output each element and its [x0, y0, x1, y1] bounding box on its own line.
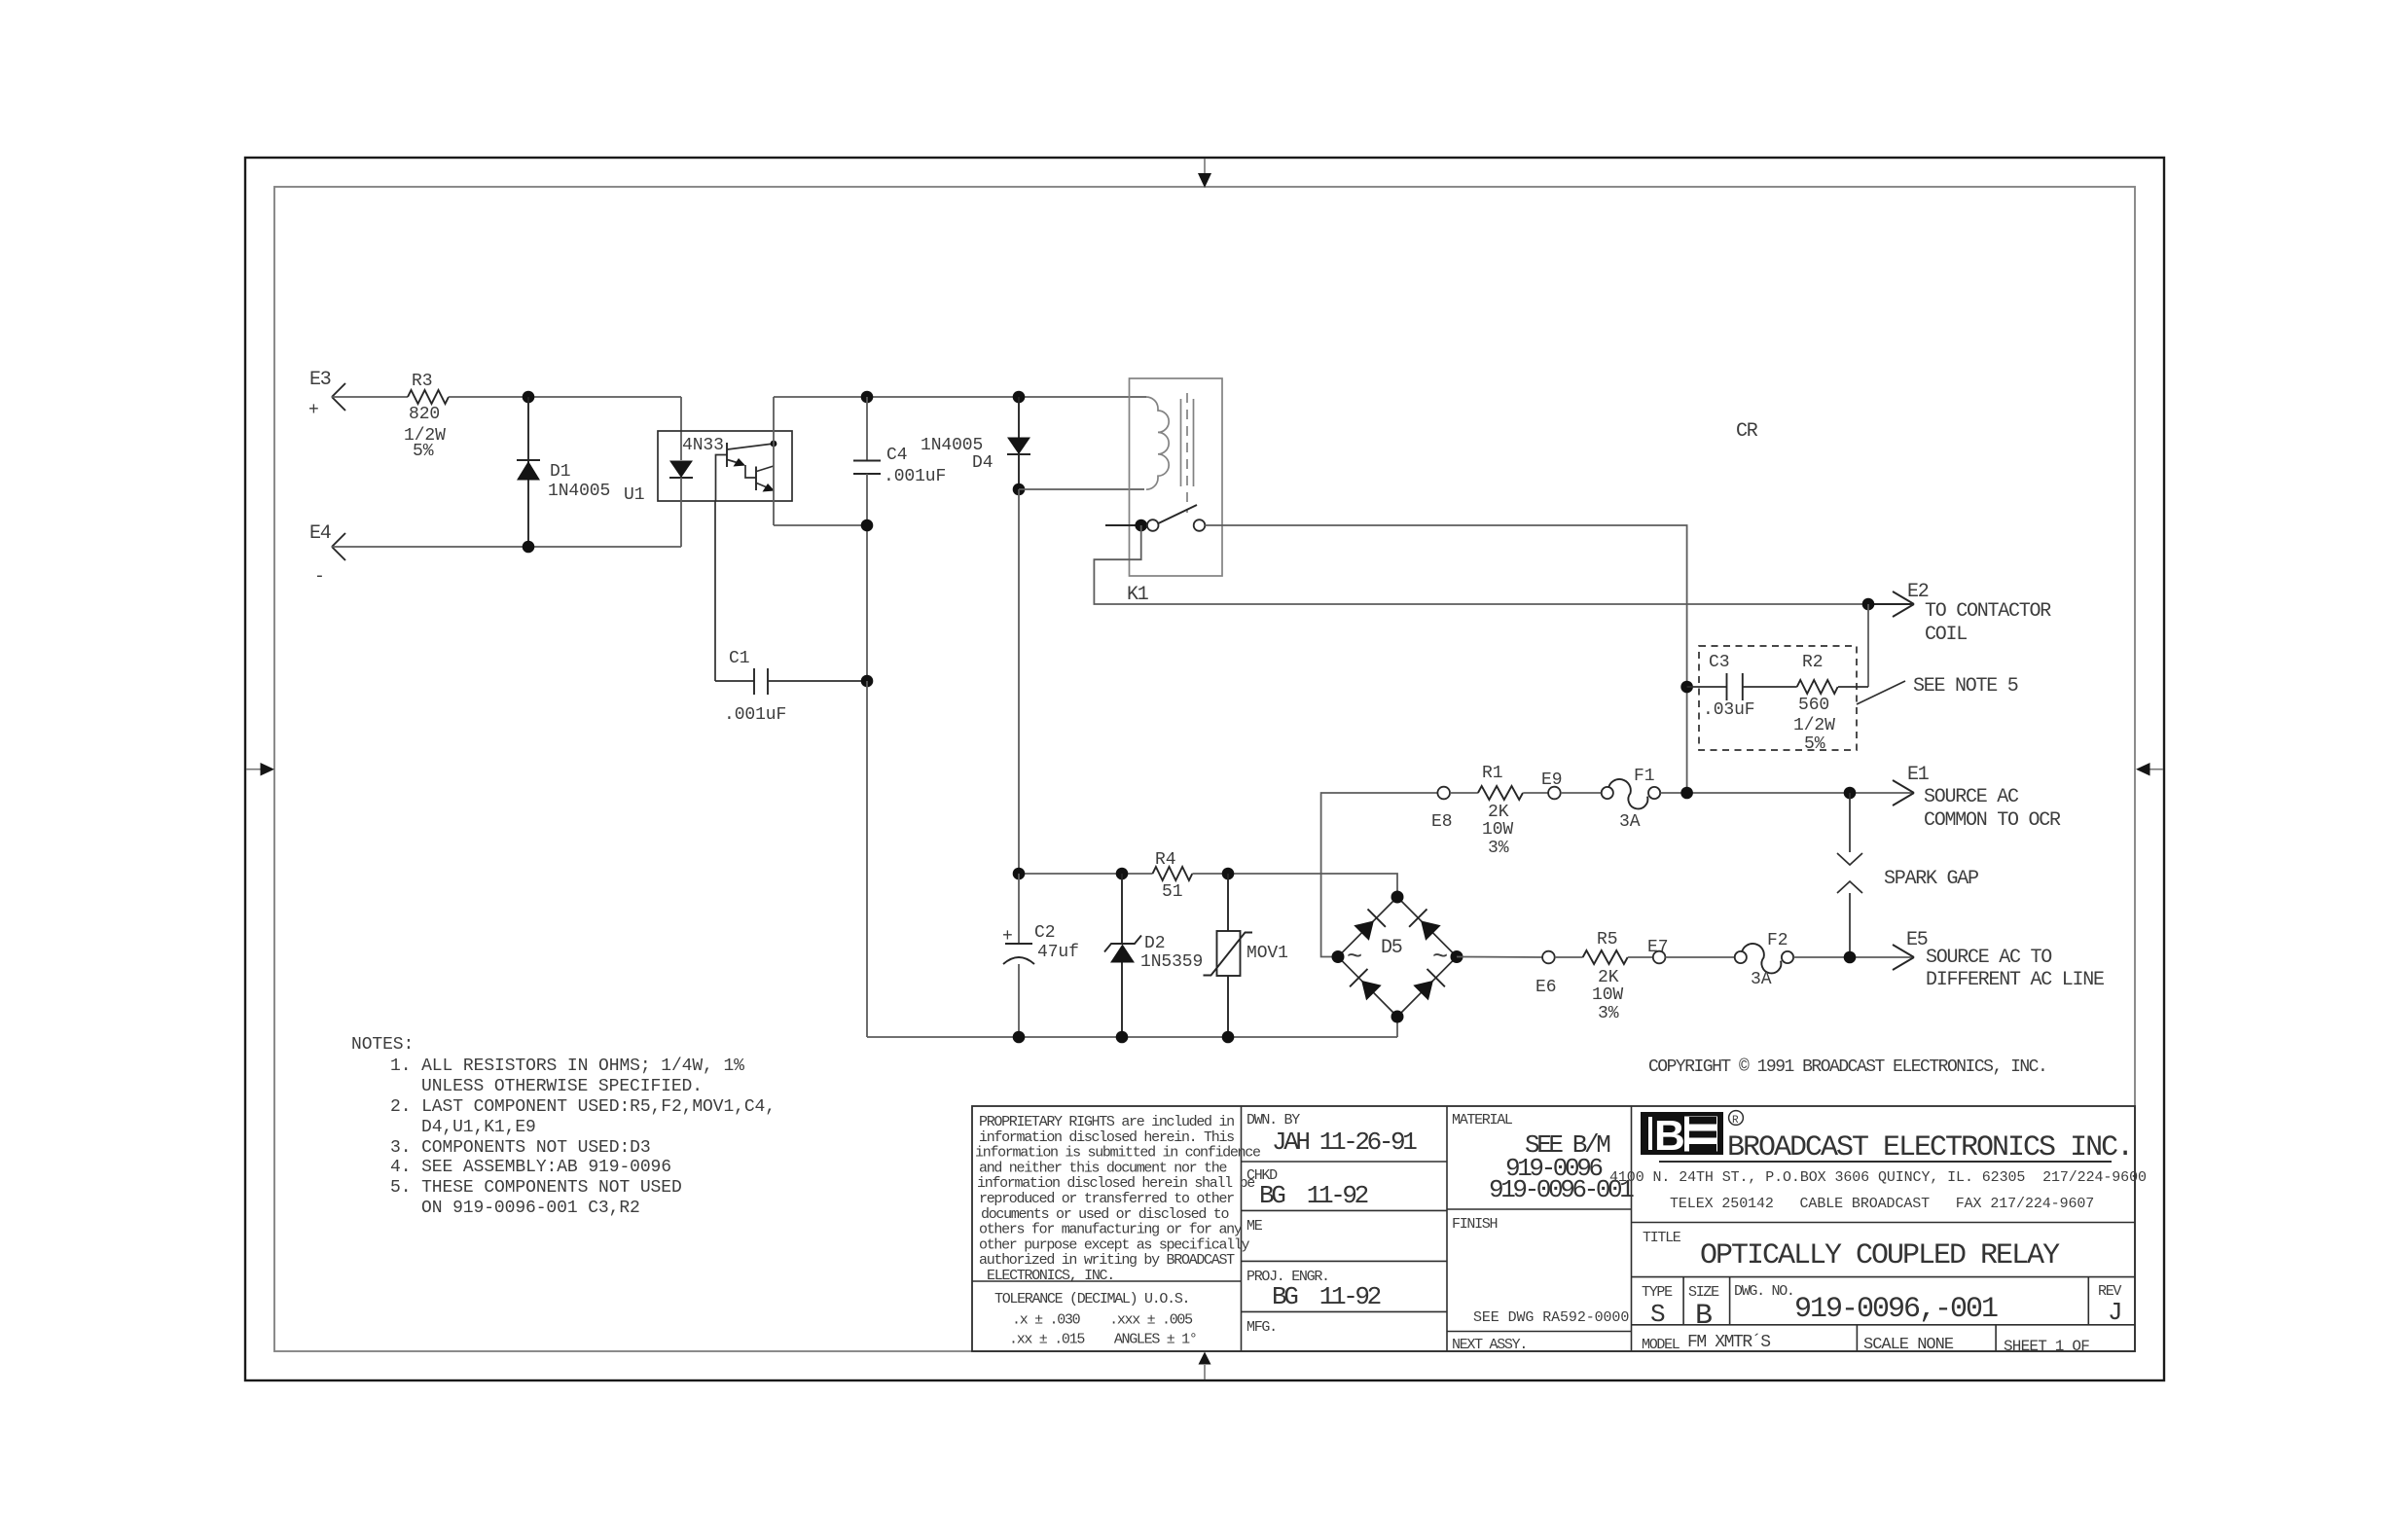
svg-text:U1: U1	[624, 485, 644, 505]
svg-text:E9: E9	[1541, 770, 1562, 790]
svg-text:+: +	[1002, 927, 1013, 947]
U1 LED	[669, 461, 693, 479]
junction node D2 top	[1116, 868, 1129, 880]
junction node C3 left tap	[1680, 681, 1693, 694]
svg-text:.001uF: .001uF	[724, 705, 786, 725]
wire R2 riser	[1867, 604, 1869, 687]
D5 vertex nodes	[1391, 891, 1404, 904]
wire E9 to F1	[1561, 792, 1602, 794]
svg-text:3. COMPONENTS NOT USED:D3: 3. COMPONENTS NOT USED:D3	[390, 1138, 651, 1158]
title row	[1632, 1223, 2136, 1273]
junction node at D1 bottom	[523, 541, 535, 554]
svg-text:FINISH: FINISH	[1452, 1216, 1498, 1233]
wire C4 column down to bottom rail	[866, 681, 868, 1037]
D5 diode bottom-left	[1361, 981, 1382, 1001]
svg-text:1. ALL RESISTORS IN OHMS; 1/4W: 1. ALL RESISTORS IN OHMS; 1/4W, 1%	[390, 1057, 744, 1076]
notes text block	[351, 1035, 776, 1218]
svg-text:MATERIAL: MATERIAL	[1452, 1112, 1513, 1128]
svg-text:E1: E1	[1907, 764, 1930, 786]
svg-text:10W: 10W	[1592, 985, 1623, 1005]
svg-text:5%: 5%	[1804, 734, 1825, 754]
wire K1 pole bent path to E2	[1094, 525, 1868, 604]
svg-text:MODEL: MODEL	[1642, 1337, 1680, 1353]
svg-text:+: +	[308, 401, 319, 420]
capacitor C2 polarized	[1002, 874, 1079, 1037]
junction node MOV1 bottom	[1222, 1031, 1235, 1044]
spark gap	[1837, 793, 1978, 957]
svg-text:5. THESE COMPONENTS NOT USED: 5. THESE COMPONENTS NOT USED	[390, 1178, 682, 1198]
svg-text:E3: E3	[309, 369, 331, 391]
relay K1 actuation dashed link	[1186, 393, 1188, 513]
svg-text:CR: CR	[1736, 420, 1758, 443]
svg-text:~: ~	[1432, 944, 1448, 973]
svg-text:TYPE: TYPE	[1642, 1284, 1673, 1301]
junction node spark gap top	[1844, 787, 1857, 800]
svg-text:820: 820	[409, 405, 440, 424]
wire E7 to F2	[1665, 956, 1734, 958]
svg-text:C2: C2	[1034, 923, 1055, 943]
junction node D4 top	[1013, 391, 1026, 404]
svg-text:authorized in writing by BROAD: authorized in writing by BROADCAST	[979, 1252, 1235, 1269]
svg-text:1/2W: 1/2W	[1793, 716, 1835, 735]
D5 diode top-right	[1421, 920, 1441, 941]
wire U1 collector to top rail	[773, 397, 775, 525]
R4 rail	[1019, 873, 1153, 875]
junction node at D1 top	[523, 391, 535, 404]
wire R3 to U1 LED drop	[449, 396, 681, 398]
svg-text:UNLESS OTHERWISE SPECIFIED.: UNLESS OTHERWISE SPECIFIED.	[421, 1077, 703, 1096]
svg-text:3%: 3%	[1598, 1004, 1619, 1023]
svg-text:J: J	[2108, 1298, 2120, 1327]
svg-text:5%: 5%	[413, 442, 434, 461]
svg-text:D1: D1	[550, 462, 570, 482]
wire E3 to R3	[332, 396, 408, 398]
U1 darlington Q2	[755, 467, 757, 491]
svg-text:B: B	[1654, 1112, 1685, 1160]
svg-text:C3: C3	[1709, 653, 1729, 672]
terminal E7	[1647, 938, 1668, 963]
capacitor C3	[1687, 653, 1797, 720]
terminal E6	[1535, 951, 1556, 997]
svg-text:OPTICALLY COUPLED RELAY: OPTICALLY COUPLED RELAY	[1700, 1239, 2060, 1272]
svg-text:reproduced or transferred to o: reproduced or transferred to other	[979, 1191, 1234, 1207]
svg-text:SOURCE AC: SOURCE AC	[1924, 786, 2019, 808]
svg-text:and neither this document nor: and neither this document nor the	[979, 1160, 1227, 1176]
capacitor C1	[715, 649, 867, 725]
svg-text:TO CONTACTOR: TO CONTACTOR	[1925, 600, 2051, 623]
type size dwg rev row	[1632, 1277, 2136, 1333]
note 5 leader line	[1857, 681, 1905, 704]
svg-text:NOTES:: NOTES:	[351, 1035, 414, 1055]
svg-text:MOV1: MOV1	[1246, 944, 1288, 963]
junction node D2 bottom	[1116, 1031, 1129, 1044]
svg-text:10W: 10W	[1482, 820, 1513, 840]
svg-text:D4: D4	[972, 453, 993, 473]
svg-text:information disclosed herein s: information disclosed herein shall be	[977, 1175, 1255, 1192]
outer border frame	[245, 158, 2164, 1380]
svg-text:TITLE: TITLE	[1643, 1230, 1681, 1246]
svg-text:COIL: COIL	[1925, 624, 1967, 646]
wire U1 base drop to C1	[714, 501, 716, 681]
node E5 terminal arrow	[1893, 929, 2104, 991]
company logo BE	[1641, 1111, 1743, 1160]
top rail from U1 to relay coil	[774, 396, 1146, 398]
opto-coupler U1 4N33	[624, 431, 792, 547]
svg-text:919-0096,-001: 919-0096,-001	[1794, 1293, 1998, 1326]
svg-text:51: 51	[1162, 882, 1182, 902]
dashed outline around C3 R2 (see note 5)	[1699, 646, 1857, 750]
svg-text:3A: 3A	[1619, 812, 1641, 832]
svg-text:E5: E5	[1906, 929, 1928, 951]
svg-text:E8: E8	[1431, 812, 1452, 832]
wire R5 to E7	[1628, 956, 1653, 958]
svg-text:F2: F2	[1767, 931, 1788, 950]
svg-text:E4: E4	[309, 522, 331, 545]
svg-text:BROADCAST ELECTRONICS INC.: BROADCAST ELECTRONICS INC.	[1727, 1131, 2132, 1164]
svg-text:F1: F1	[1634, 767, 1654, 786]
svg-text:-: -	[314, 567, 325, 587]
svg-text:SHEET 1 OF: SHEET 1 OF	[2004, 1338, 2089, 1355]
svg-text:D4,U1,K1,E9: D4,U1,K1,E9	[421, 1118, 536, 1137]
svg-text:4. SEE ASSEMBLY:AB 919-0096: 4. SEE ASSEMBLY:AB 919-0096	[390, 1158, 671, 1177]
svg-text:BG 11-92: BG 11-92	[1259, 1181, 1368, 1210]
wire U1 emitter to C4 column	[774, 524, 867, 526]
inner border frame	[274, 187, 2135, 1351]
svg-text:ON 919-0096-001 C3,R2: ON 919-0096-001 C3,R2	[421, 1199, 640, 1218]
svg-text:TOLERANCE (DECIMAL) U.O.S.: TOLERANCE (DECIMAL) U.O.S.	[994, 1291, 1189, 1307]
relay K1 core	[1181, 399, 1194, 486]
terminal E9	[1541, 770, 1562, 799]
node E1 terminal arrow	[1893, 764, 2061, 832]
junction node C2 bottom	[1013, 1031, 1026, 1044]
terminal E8	[1431, 787, 1452, 832]
svg-text:R4: R4	[1155, 850, 1175, 870]
svg-text:information is submitted in co: information is submitted in confidence	[975, 1145, 1261, 1162]
svg-text:R5: R5	[1597, 930, 1617, 949]
proprietary rights text	[975, 1114, 1261, 1284]
wire E4 row	[332, 546, 681, 548]
svg-text:FM XMTR´S: FM XMTR´S	[1687, 1333, 1770, 1352]
svg-text:SOURCE AC TO: SOURCE AC TO	[1926, 947, 2051, 969]
resistor R4	[1153, 850, 1193, 902]
svg-text:B: B	[1695, 1300, 1712, 1333]
resistor R5	[1583, 930, 1628, 1023]
svg-text:TELEX 250142 CABLE BROADCAST: TELEX 250142 CABLE BROADCAST FAX 217/224…	[1670, 1196, 2094, 1212]
wire E1 row left segment to bridge feed	[1321, 793, 1438, 957]
svg-text:information disclosed herein.: information disclosed herein. This	[979, 1129, 1234, 1146]
fuse F2	[1735, 931, 1793, 989]
D5 diode top-left	[1354, 920, 1374, 941]
svg-text:other purpose except as specif: other purpose except as specifically	[979, 1236, 1250, 1253]
svg-text:SEE DWG RA592-0000: SEE DWG RA592-0000	[1473, 1309, 1629, 1326]
svg-text:SCALE NONE: SCALE NONE	[1863, 1336, 1954, 1354]
svg-text:DWN. BY: DWN. BY	[1246, 1112, 1300, 1128]
title block outline	[972, 1106, 2135, 1351]
svg-text:others for manufacturing or fo: others for manufacturing or for any	[979, 1222, 1243, 1238]
bottom rail	[867, 1036, 1397, 1038]
relay K1 switch	[1105, 505, 1205, 531]
wire E6 to R5	[1555, 956, 1583, 958]
svg-text:E7: E7	[1647, 938, 1668, 957]
svg-text:.001uF: .001uF	[884, 467, 946, 486]
tolerance box	[972, 1281, 1242, 1348]
svg-text:R3: R3	[412, 372, 432, 391]
svg-text:C1: C1	[729, 649, 749, 668]
company name	[1609, 1131, 2147, 1212]
model scale sheet row	[1632, 1325, 2136, 1355]
svg-text:NEXT ASSY.: NEXT ASSY.	[1452, 1337, 1527, 1353]
junction node F1 / K1 riser	[1680, 787, 1693, 800]
svg-text:D2: D2	[1144, 934, 1165, 953]
svg-text:BG 11-92: BG 11-92	[1272, 1282, 1381, 1311]
wire bottom rail to bridge bottom riser	[1396, 1017, 1398, 1037]
junction node R4 left	[1013, 868, 1026, 880]
wire R1 to E9	[1523, 792, 1548, 794]
U1 base lead to C1	[716, 455, 728, 502]
resistor R3	[404, 372, 449, 461]
wire E2 tail and arrow	[1868, 581, 2051, 646]
svg-text:PROPRIETARY RIGHTS are include: PROPRIETARY RIGHTS are included in	[979, 1114, 1234, 1130]
svg-text:SPARK GAP: SPARK GAP	[1884, 868, 1978, 890]
fuse F1	[1602, 767, 1660, 832]
diode D4	[921, 397, 1030, 489]
svg-text:MFG.: MFG.	[1246, 1319, 1277, 1336]
node E3 terminal arrow	[308, 369, 345, 420]
svg-text:~: ~	[1347, 944, 1362, 973]
svg-text:1N4005: 1N4005	[921, 436, 983, 455]
left center border marker	[246, 763, 274, 776]
wire K1 throw to E1 riser	[1205, 525, 1686, 793]
resistor R1	[1478, 764, 1523, 858]
svg-text:SEE NOTE 5: SEE NOTE 5	[1913, 675, 2018, 698]
svg-text:1N4005: 1N4005	[548, 482, 610, 501]
junction node C1 right	[861, 675, 874, 688]
svg-text:C4: C4	[886, 446, 907, 465]
junction node E2 / R2 riser	[1862, 598, 1875, 611]
junction node C4 bottom / U1 emitter	[861, 519, 874, 532]
svg-text:K1: K1	[1127, 584, 1149, 606]
diode D1	[517, 397, 610, 547]
svg-text:1N5359: 1N5359	[1140, 952, 1203, 972]
wire E8 to R1	[1450, 792, 1478, 794]
wire R4 to bridge top riser	[1192, 874, 1397, 897]
right center border marker	[2136, 763, 2163, 776]
junction node spark gap bottom	[1844, 951, 1857, 964]
D5 diode bottom-right	[1413, 981, 1433, 1001]
svg-text:3%: 3%	[1488, 839, 1509, 858]
junction node D4 bottom	[1013, 483, 1026, 496]
svg-text:4100 N. 24TH ST., P.O.BOX 3606: 4100 N. 24TH ST., P.O.BOX 3606 QUINCY, I…	[1609, 1169, 2147, 1186]
wire F1 to E1	[1660, 792, 1912, 794]
svg-text:47uf: 47uf	[1037, 943, 1079, 962]
svg-text:JAH 11-26-91: JAH 11-26-91	[1272, 1128, 1417, 1157]
svg-text:.03uF: .03uF	[1703, 700, 1755, 720]
svg-text:COMMON TO OCR: COMMON TO OCR	[1924, 809, 2061, 832]
svg-text:3A: 3A	[1751, 970, 1772, 989]
svg-text:560: 560	[1798, 696, 1829, 715]
wire D4 column down to R4 rail	[1018, 489, 1020, 874]
relay K1 coil	[1146, 397, 1169, 489]
zener diode D2	[1104, 874, 1203, 1037]
svg-text:ME: ME	[1246, 1218, 1263, 1235]
node E4 terminal arrow	[309, 522, 345, 587]
U1 darlington Q1	[726, 443, 728, 467]
material column	[1447, 1112, 1634, 1353]
relay K1 box	[1127, 378, 1222, 606]
svg-text:.xx ± .015 ANGLES ± 1°: .xx ± .015 ANGLES ± 1°	[1009, 1332, 1197, 1348]
svg-text:DIFFERENT AC LINE: DIFFERENT AC LINE	[1926, 969, 2104, 991]
svg-text:2K: 2K	[1488, 803, 1509, 822]
drafting column rows	[1242, 1112, 1448, 1336]
svg-text:DWG. NO.: DWG. NO.	[1734, 1283, 1794, 1300]
wire D4 to K1 coil bottom	[1019, 488, 1144, 490]
svg-text:D5: D5	[1381, 937, 1402, 959]
wire bridge right vertex to E6	[1457, 956, 1542, 959]
svg-text:E6: E6	[1535, 978, 1556, 997]
varistor MOV1	[1204, 874, 1288, 1037]
svg-text:documents or used or disclosed: documents or used or disclosed to	[981, 1206, 1229, 1223]
bridge rectifier D5	[1332, 891, 1463, 1023]
svg-text:2. LAST COMPONENT USED:R5,F2,M: 2. LAST COMPONENT USED:R5,F2,MOV1,C4,	[390, 1097, 776, 1117]
svg-text:R1: R1	[1482, 764, 1502, 783]
svg-text:R2: R2	[1802, 653, 1823, 672]
wire F2 to E5	[1793, 956, 1912, 958]
svg-text:.x ± .030 .xxx ± .005: .x ± .030 .xxx ± .005	[1012, 1312, 1193, 1329]
junction node C4 top	[861, 391, 874, 404]
wire drop into U1 LED	[680, 397, 682, 460]
svg-text:2K: 2K	[1598, 968, 1619, 987]
svg-text:SIZE: SIZE	[1688, 1284, 1719, 1301]
svg-text:COPYRIGHT © 1991 BROADCAST ELE: COPYRIGHT © 1991 BROADCAST ELECTRONICS, …	[1648, 1057, 2046, 1077]
svg-text:4N33: 4N33	[682, 436, 724, 455]
bottom center border marker	[1199, 1352, 1211, 1380]
capacitor C4	[853, 397, 946, 681]
resistor R2	[1793, 653, 1868, 754]
junction node MOV1 top	[1222, 868, 1235, 880]
top center border marker	[1198, 159, 1211, 188]
